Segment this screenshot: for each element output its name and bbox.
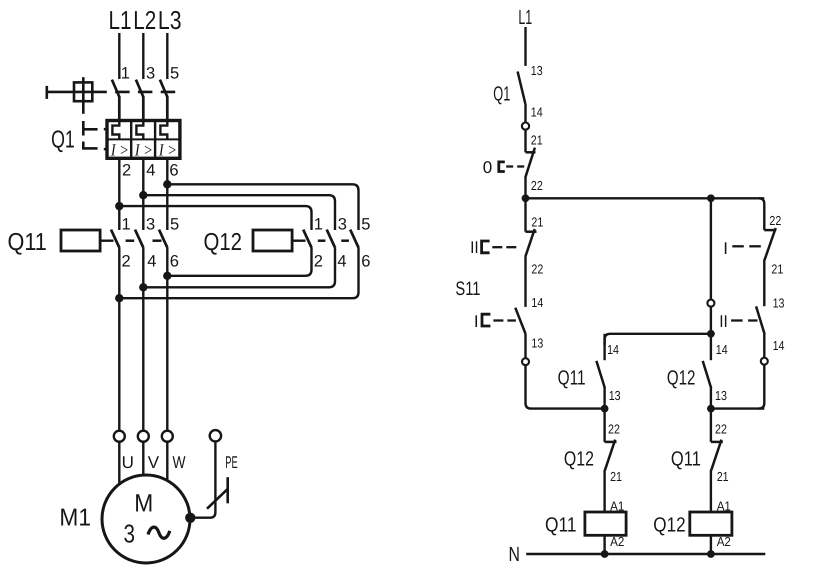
wire branch phase1 to Q12 pin1: [119, 206, 311, 230]
svg-text:L1: L1: [518, 6, 532, 29]
svg-text:5: 5: [361, 215, 370, 233]
wire node to right branch: [526, 197, 765, 199]
wire W to motor: [166, 442, 168, 481]
wire Q12 pin4 to phase V node: [143, 248, 335, 287]
svg-text:21: 21: [531, 133, 543, 148]
svg-text:3: 3: [146, 215, 155, 233]
svg-text:5: 5: [170, 65, 179, 83]
wire phase V lower: [142, 248, 144, 431]
svg-text:22: 22: [531, 261, 543, 276]
breaker Q1 box left stub 1: [104, 128, 107, 130]
node junction dot phase1 top: [115, 202, 123, 210]
svg-text:6: 6: [169, 162, 178, 180]
node after stop dot: [522, 194, 530, 202]
breaker Q1 box divider horizontal: [107, 138, 180, 140]
wire Q12 coil to blade: [292, 239, 305, 241]
svg-text:I >: I >: [134, 141, 153, 160]
wire V to motor: [142, 442, 144, 476]
terminal circle Q12 branch: [707, 300, 714, 307]
breaker Q1 trip unit box: [107, 121, 180, 159]
contactor Q11 linkage dash 1: [126, 239, 135, 242]
svg-text:Q11: Q11: [671, 447, 701, 470]
terminal PE circle: [210, 430, 221, 441]
breaker Q1 operator square: [74, 82, 92, 101]
wire branch phase2 to Q12 pin3: [143, 195, 335, 230]
contactor Q12 pole 1 blade: [303, 230, 312, 248]
svg-text:3: 3: [124, 519, 136, 549]
svg-text:II: II: [719, 312, 728, 331]
svg-text:L1: L1: [109, 5, 132, 35]
wire Q11 coil to N: [603, 535, 605, 554]
contact Q1 aux NO blade: [518, 72, 526, 105]
node junction dot phase2 top: [139, 191, 147, 199]
contactor Q11 pole 2 blade: [135, 230, 144, 248]
wire phase U upper: [118, 158, 120, 230]
svg-text:S11: S11: [455, 278, 480, 300]
wire Q12 aux lower: [710, 388, 712, 409]
wire Q11 aux top branch: [605, 334, 711, 345]
wire L1 drop: [118, 33, 120, 79]
svg-text:14: 14: [531, 295, 543, 310]
svg-text:4: 4: [146, 162, 155, 180]
svg-text:13: 13: [531, 335, 543, 350]
contact S11 I NC right: [764, 228, 776, 260]
svg-text:13: 13: [531, 63, 543, 78]
svg-text:I: I: [723, 239, 728, 258]
svg-text:2: 2: [314, 253, 323, 271]
svg-text:Q12: Q12: [653, 513, 685, 536]
contactor Q11 pole 1 blade: [111, 230, 120, 248]
breaker Q1 thermal element pole 1: [112, 121, 119, 140]
selector S11 II actuator bracket: [482, 241, 490, 253]
svg-text:21: 21: [531, 215, 543, 230]
wire phase V upper: [142, 158, 144, 230]
svg-text:Q1: Q1: [51, 127, 75, 154]
pushbutton 0 actuator bracket: [499, 162, 505, 172]
svg-text:14: 14: [531, 105, 543, 120]
svg-text:U: U: [122, 453, 134, 472]
terminal W circle: [162, 431, 173, 442]
coil Q11 box: [585, 512, 626, 535]
contactor Q12 linkage dash 1: [318, 239, 326, 242]
wire Q12 pin6 to phase U node: [119, 248, 358, 298]
wire L3 drop: [166, 33, 168, 79]
wire phase W lower: [166, 248, 168, 431]
svg-text:14: 14: [773, 338, 785, 353]
svg-text:W: W: [173, 453, 186, 472]
svg-text:0: 0: [483, 158, 492, 177]
wire U to motor: [118, 442, 120, 485]
svg-text:A2: A2: [610, 534, 624, 549]
node dot left rung: [601, 405, 609, 413]
contactor Q11 pole 3 blade: [159, 230, 168, 248]
svg-text:4: 4: [147, 253, 156, 271]
selector S11 II dashed link: [492, 246, 516, 248]
svg-text:14: 14: [607, 342, 619, 357]
terminal U circle: [114, 431, 125, 442]
terminal V circle: [138, 431, 149, 442]
svg-text:M: M: [134, 490, 153, 518]
contactor Q12 coil: [253, 230, 292, 251]
breaker Q1 operator terminal tick: [45, 86, 48, 99]
wire Q1 aux to terminal: [524, 104, 526, 123]
svg-text:L3: L3: [158, 5, 182, 35]
svg-text:1: 1: [314, 215, 323, 233]
breaker Q1 thermal element pole 3: [160, 121, 167, 140]
node junction dot phase3 top: [163, 180, 171, 188]
svg-text:A2: A2: [717, 534, 731, 549]
contact Q11 interlock NC: [711, 440, 723, 471]
contactor Q11 linkage dash 2: [153, 239, 162, 242]
wire left rung to interlock: [603, 409, 605, 442]
wire right branch lower: [763, 334, 765, 358]
svg-text:Q12: Q12: [564, 447, 594, 470]
contact S11 II NO blade right: [756, 306, 765, 334]
wire Q12 pin2 to phase W node: [167, 248, 311, 276]
svg-text:13: 13: [773, 296, 785, 311]
svg-text:2: 2: [122, 253, 131, 271]
svg-text:L2: L2: [133, 5, 156, 35]
terminal circle below S11 I: [522, 358, 529, 365]
wire interlock to coil A1: [603, 470, 605, 512]
selector S11 I right dashed link: [732, 245, 761, 247]
breaker Q1 pole 2 contact: [136, 80, 144, 121]
wire N rail: [526, 553, 765, 555]
contact stop 0 NC: [525, 148, 535, 178]
wire Q12 branch drop: [710, 198, 712, 299]
wire right branch drop: [759, 198, 765, 230]
wire right branch middle: [763, 260, 765, 307]
svg-text:22: 22: [769, 213, 781, 228]
terminal circle right branch: [761, 358, 768, 365]
svg-text:5: 5: [170, 215, 179, 233]
svg-text:II: II: [470, 238, 479, 257]
svg-text:Q11: Q11: [545, 513, 577, 536]
terminal circle below Q1 aux: [522, 123, 529, 130]
wire right branch to rung: [759, 365, 765, 409]
svg-text:14: 14: [716, 342, 728, 357]
svg-text:V: V: [148, 453, 160, 472]
wire interlock to coil A1 right: [710, 470, 712, 512]
wire Q11 aux upper: [603, 334, 605, 360]
node dot right rung: [707, 405, 715, 413]
PE sliding contact slash: [207, 489, 228, 509]
svg-text:22: 22: [531, 178, 543, 193]
PE sliding contact bar: [226, 477, 229, 503]
breaker Q1 actuator dashed bar: [92, 91, 175, 94]
node dot Q12 branch top: [707, 194, 715, 202]
coil Q12 box: [690, 512, 732, 535]
wire L2 drop: [142, 33, 144, 79]
wire stop to node: [524, 177, 526, 198]
contact S11 I NO blade: [515, 308, 525, 334]
svg-text:Q12: Q12: [204, 229, 243, 256]
breaker Q1 pole 3 contact: [160, 80, 168, 121]
wire right rung to interlock: [710, 409, 712, 442]
wire Q11 aux lower: [603, 388, 605, 409]
contactor Q11 coil: [61, 230, 100, 251]
selector S11 I dashed link: [493, 319, 516, 321]
wire L1 control drop: [524, 27, 526, 66]
breaker Q1 box divider vertical 1: [130, 121, 132, 159]
motor tilde symbol: [148, 527, 170, 538]
node dot Q11 coil N: [601, 550, 609, 558]
selector S11 II right dashed link: [731, 319, 757, 321]
contactor Q12 linkage dash 2: [341, 239, 349, 242]
svg-text:21: 21: [610, 469, 622, 484]
svg-text:21: 21: [771, 261, 783, 276]
wire Q12 branch terminal down: [710, 307, 712, 334]
breaker Q1 trip linkage dash 1: [82, 121, 97, 136]
contact Q12 aux NO blade: [703, 361, 712, 388]
node dot Q12 branch mid: [707, 330, 715, 338]
wire PE drop: [190, 442, 215, 518]
svg-text:22: 22: [608, 421, 620, 436]
contactor Q12 pole 2 blade: [327, 230, 336, 248]
breaker Q1 pole 1 contact: [112, 80, 120, 121]
breaker Q1 box left stub 2: [104, 148, 107, 151]
wire node to S11 II contact: [524, 198, 526, 231]
pushbutton 0 dashed link: [506, 165, 524, 167]
wire S11 II to S11 I: [524, 256, 526, 307]
svg-text:13: 13: [715, 388, 727, 403]
svg-text:22: 22: [715, 421, 727, 436]
wire terminal to stop contact: [524, 130, 526, 153]
svg-text:13: 13: [609, 388, 621, 403]
wire S11 I to terminal: [524, 334, 526, 358]
wire S11 I terminal down: [526, 365, 607, 409]
node junction dot phase2 bottom: [139, 283, 147, 291]
contactor Q12 pole 3 blade: [350, 230, 359, 248]
breaker Q1 thermal element pole 2: [136, 121, 143, 140]
svg-text:I >: I >: [110, 141, 129, 160]
node junction dot phase3 bottom: [163, 272, 171, 280]
breaker Q1 operator link wire: [47, 91, 93, 94]
svg-text:M1: M1: [59, 505, 91, 532]
svg-text:1: 1: [121, 65, 130, 83]
svg-text:Q11: Q11: [8, 229, 47, 256]
svg-text:Q11: Q11: [558, 366, 586, 389]
wire Q11 coil to blade: [100, 239, 113, 241]
svg-text:Q12: Q12: [667, 366, 696, 389]
svg-text:I >: I >: [158, 141, 177, 160]
wire right rung horizontal: [711, 407, 764, 409]
svg-text:1: 1: [122, 215, 131, 233]
svg-text:I: I: [474, 312, 479, 331]
contact Q11 aux NO blade: [596, 361, 605, 388]
node dot Q12 coil N: [707, 550, 715, 558]
svg-text:3: 3: [146, 65, 155, 83]
svg-text:N: N: [509, 543, 520, 566]
wire phase U lower: [118, 248, 120, 431]
contact S11 II NC: [525, 229, 536, 257]
svg-text:3: 3: [338, 215, 347, 233]
selector S11 I actuator bracket: [482, 314, 490, 326]
wire Q12 coil to N: [710, 535, 712, 554]
svg-text:6: 6: [170, 253, 179, 271]
svg-text:PE: PE: [225, 453, 237, 472]
svg-text:2: 2: [122, 162, 131, 180]
svg-text:6: 6: [361, 253, 370, 271]
svg-text:4: 4: [337, 253, 346, 271]
breaker Q1 box divider vertical 2: [154, 121, 156, 159]
node PE junction dot on motor: [185, 513, 195, 523]
svg-text:21: 21: [717, 469, 729, 484]
motor M1 circle: [102, 475, 190, 563]
wire phase W upper: [166, 158, 168, 230]
breaker Q1 trip linkage dash 2: [82, 142, 97, 150]
wire branch phase3 to Q12 pin5: [167, 184, 358, 230]
wire Q12 aux upper: [710, 334, 712, 360]
contact Q12 interlock NC: [605, 440, 617, 471]
svg-text:Q1: Q1: [493, 82, 510, 105]
node junction dot phase1 bottom: [115, 294, 123, 302]
breaker Q1 operator cross vertical: [82, 77, 85, 114]
